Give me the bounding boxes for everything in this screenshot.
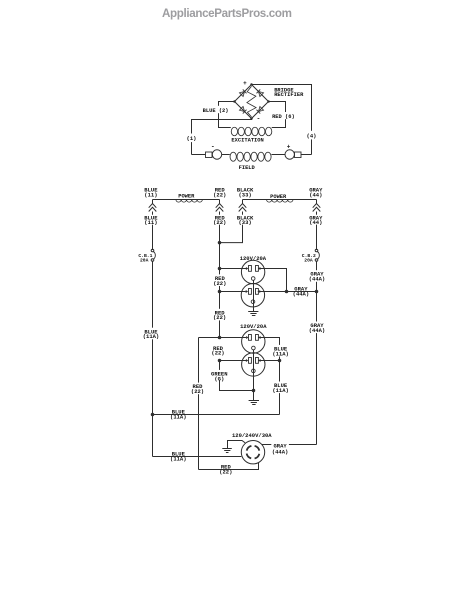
wire: RED bus to R1 lower hot	[220, 291, 246, 293]
ground symbol below R1	[248, 312, 258, 316]
svg-text:(11A): (11A)	[143, 333, 160, 340]
wire: R3 ground pin to chassis ground	[228, 441, 246, 449]
wire: R1 lower neutral to GRAY bus	[258, 290, 260, 293]
svg-text:(11A): (11A)	[170, 414, 187, 421]
wire: BLUE into R3 left pin	[153, 456, 242, 458]
wire: bridge - output to left bus (1)	[192, 119, 252, 155]
right brush terminal square	[295, 152, 302, 158]
svg-text:(11A): (11A)	[170, 456, 187, 463]
svg-text:+: +	[243, 80, 247, 87]
wire label RED (6)	[282, 112, 290, 119]
right brush B2 (positive)	[285, 150, 294, 159]
svg-text:POWER: POWER	[270, 194, 287, 200]
svg-text:120V/20A: 120V/20A	[240, 323, 267, 330]
svg-text:(4): (4)	[307, 132, 317, 139]
circuit breaker C.B.2 20A	[315, 249, 318, 252]
svg-text:(44): (44)	[309, 219, 322, 226]
wire: RED feed to R2 upper hot and 30A branch	[199, 337, 247, 339]
wire label GRAY (44A) on right bus lower	[308, 322, 325, 334]
wire: R2 lower hot GREEN jumper to ground	[220, 361, 254, 391]
wire: R1 ground link	[253, 280, 255, 311]
svg-text:(33): (33)	[238, 191, 251, 198]
lead connector plug, GRAY (44) lead	[316, 200, 318, 204]
wire: RED feed down to 30A receptacle	[198, 338, 200, 470]
lead connector plug, BLUE (11) lead	[152, 200, 154, 204]
svg-text:(22): (22)	[191, 388, 204, 395]
ground symbol below R2	[249, 401, 259, 405]
wire: RED into R3 bottom pin	[199, 463, 259, 470]
junction dots at bridge vertices	[250, 83, 253, 86]
wire label BLUE (11A) at R2 right upper	[271, 345, 288, 357]
svg-text:(44): (44)	[309, 191, 322, 198]
wire label GRAY (44A) at R3	[271, 443, 289, 455]
wire: BLUE from R2 down to blue return	[279, 361, 281, 415]
junction dot R1 neutrals	[285, 290, 289, 294]
excitation winding coil	[231, 127, 237, 136]
wire label BLUE (11A) at R2 right lower	[271, 382, 288, 394]
wire: GRAY bus C.B.2 down to 30A receptacle	[316, 261, 318, 445]
wire: bridge right AC vertex RED (6) to excitation right end	[269, 102, 286, 128]
svg-text:POWER: POWER	[178, 194, 195, 200]
wire: bridge left AC vertex BLUE (2) to excitation left end	[219, 102, 235, 128]
receptacle R2 lower outlet face	[242, 353, 265, 376]
wire: BLUE return run to left bus	[153, 414, 280, 416]
lead connector plug, RED (22) lead	[219, 200, 221, 204]
bridge rectifier internal zigzag element	[247, 86, 256, 117]
left brush terminal square	[206, 152, 213, 158]
bridge diode D4 (lower-right edge)	[256, 106, 263, 113]
junction dot on RED bus at R1 lower	[218, 290, 222, 294]
lead connector plug, BLACK (33) lead	[242, 200, 244, 204]
wire: BLACK lead ties to RED bus	[220, 225, 243, 243]
svg-text:(11): (11)	[144, 191, 157, 198]
svg-text:-: -	[256, 116, 260, 123]
svg-text:20A: 20A	[304, 258, 313, 264]
svg-text:BLUE (2): BLUE (2)	[203, 108, 229, 114]
receptacle R2 upper outlet face	[242, 330, 265, 353]
svg-text:20A: 20A	[140, 258, 149, 264]
corner dot GREEN jumper	[218, 359, 222, 363]
bridge rectifier BR1 diamond outline	[235, 85, 269, 119]
svg-text:-: -	[211, 143, 215, 150]
svg-text:(22): (22)	[213, 314, 226, 321]
junction: BLACK joins RED	[218, 241, 222, 245]
svg-text:120V/20A: 120V/20A	[240, 255, 267, 262]
svg-text:(44A): (44A)	[272, 448, 289, 455]
svg-text:+: +	[287, 144, 291, 151]
wire: R1 upper neutral to gray tie	[258, 267, 260, 270]
receptacle R1 upper outlet face	[241, 260, 264, 283]
junction dot R2 neutrals	[278, 359, 282, 363]
receptacle R3 twist-lock face	[241, 441, 264, 464]
bridge diode D1 (upper-left edge)	[239, 89, 246, 96]
field winding coil	[230, 152, 236, 161]
wire: RED bus to R1 upper hot	[220, 268, 247, 270]
svg-text:RECTIFIER: RECTIFIER	[274, 92, 304, 98]
svg-text:(G): (G)	[214, 375, 224, 382]
svg-text:AppliancePartsPros.com: AppliancePartsPros.com	[162, 7, 292, 20]
wire: BLUE bus C.B.1 to blue junction at bottom	[152, 261, 154, 457]
svg-text:RED (6): RED (6)	[272, 114, 295, 120]
junction dot on GRAY bus	[315, 290, 319, 294]
svg-text:(11A): (11A)	[272, 387, 289, 394]
wire label GREEN (G)	[211, 370, 227, 381]
svg-text:(22): (22)	[213, 191, 226, 198]
node label (1)	[184, 134, 199, 143]
wire: R2 lower neutral	[258, 359, 260, 362]
junction dot on RED bus at R1 upper	[218, 267, 222, 271]
wire: R2 ground link	[253, 350, 255, 401]
svg-text:(11A): (11A)	[272, 350, 289, 357]
wire label RED (22) on red bus upper	[211, 274, 227, 286]
svg-text:(22): (22)	[219, 469, 232, 476]
ground symbol at R3	[222, 449, 232, 453]
wire: GRAY bus into R3 neutral/hot pin	[262, 444, 317, 446]
svg-text:(44A): (44A)	[309, 327, 326, 334]
node label (4)	[304, 131, 319, 140]
svg-text:(22): (22)	[213, 280, 226, 287]
wire: left bus to left brush terminal	[192, 154, 206, 156]
svg-text:(22): (22)	[211, 350, 224, 357]
junction dot RED bus end at R2	[218, 336, 222, 340]
wire: RED bus down from connector	[219, 225, 221, 338]
wire: GRAY bus down to C.B.2	[316, 225, 318, 250]
junction dot BLUE return on left bus	[151, 413, 155, 417]
wire label BLUE (11A) on left bus	[144, 328, 160, 340]
wire: field coil to right brush	[272, 154, 286, 156]
stator power winding T1 (left)	[153, 199, 220, 201]
svg-text:(44A): (44A)	[293, 290, 310, 297]
wire: right brush terminal to right bus	[301, 154, 312, 156]
wire: bridge + output, top vertex to right bus (4)	[252, 85, 312, 155]
stator power winding T2 (right)	[243, 199, 317, 201]
wire: R2 upper neutral to BLUE tie	[258, 336, 260, 339]
wire label RED (22) on red bus lower	[211, 309, 227, 321]
svg-text:(11): (11)	[144, 219, 157, 226]
wire label BLUE (2)	[215, 106, 223, 113]
svg-text:120/240V/30A: 120/240V/30A	[232, 432, 272, 439]
wire: BLUE bus down to C.B.1	[152, 225, 154, 250]
svg-text:(33): (33)	[238, 219, 251, 226]
left brush B1 (negative)	[212, 150, 221, 159]
wire: left brush to field coil	[222, 154, 230, 156]
svg-text:(44A): (44A)	[309, 276, 326, 283]
bridge diode D2 (upper-right edge)	[256, 89, 263, 96]
svg-text:FIELD: FIELD	[239, 165, 256, 171]
circuit breaker C.B.1 20A	[151, 249, 154, 252]
svg-text:EXCITATION: EXCITATION	[231, 137, 263, 143]
bridge diode D3 (lower-left edge)	[239, 106, 246, 113]
receptacle R1 lower outlet face	[241, 284, 264, 307]
wire label GRAY (44A) on right bus upper	[308, 270, 325, 282]
wire label RED (22) on red feed	[190, 383, 206, 395]
junction dot ground/green	[252, 389, 256, 393]
svg-text:(1): (1)	[187, 135, 197, 142]
